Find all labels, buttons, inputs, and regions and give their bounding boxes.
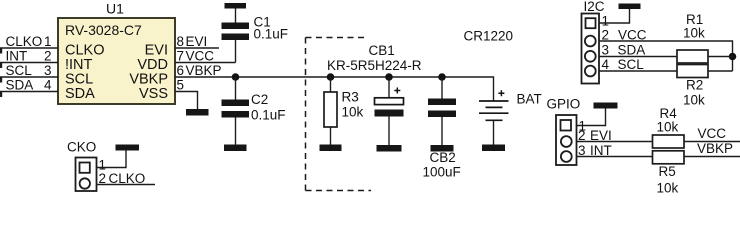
svg-text:C2: C2: [251, 92, 268, 107]
connector GPIO: [556, 115, 577, 165]
connector CKO: [76, 158, 97, 192]
CKO pin 1 wire to ground: [97, 151, 127, 173]
ground above CKO: [116, 145, 140, 151]
svg-text:CB1: CB1: [369, 43, 395, 58]
svg-text:2: 2: [44, 49, 52, 64]
svg-text:10k: 10k: [683, 26, 705, 41]
svg-text:U1: U1: [106, 1, 124, 17]
svg-text:SCL: SCL: [618, 57, 645, 72]
node junction C2/bus: [232, 73, 240, 81]
svg-text:BAT: BAT: [517, 92, 542, 107]
resistor R4: [653, 135, 740, 148]
svg-text:KR-5R5H224-R: KR-5R5H224-R: [327, 58, 422, 73]
connector I2C: [582, 14, 600, 84]
svg-text:3: 3: [44, 63, 52, 78]
net EVI wire (GPIO pin 2): [577, 128, 653, 143]
net SCL wire (I2C pin 4): [599, 57, 677, 72]
svg-text:CR1220: CR1220: [464, 29, 514, 44]
IC U1 RV-3028-C7: [58, 18, 175, 104]
ground below CB2: [431, 145, 454, 152]
net INT (IC pin 2) wire: [0, 49, 58, 69]
svg-text:3: 3: [578, 143, 586, 158]
svg-text:4: 4: [602, 57, 610, 72]
svg-text:8: 8: [177, 34, 185, 49]
label R5 10k: [657, 164, 679, 196]
resistor R3: [324, 77, 337, 145]
svg-text:0.1uF: 0.1uF: [251, 108, 286, 123]
capacitor CB1 (supercap, polarized): [375, 77, 404, 145]
svg-text:CLKO: CLKO: [6, 34, 43, 49]
label CB2 100uF: [423, 150, 461, 180]
net VCC wire (I2C pin 2): [599, 28, 733, 72]
capacitor CB2: [428, 77, 456, 145]
node junction CB2/bus: [438, 73, 446, 81]
svg-text:10k: 10k: [657, 181, 679, 196]
node junction R1/VCC: [729, 53, 737, 61]
dashed enclosure (backup options): [306, 38, 372, 191]
svg-text:2: 2: [602, 28, 610, 43]
svg-text:1: 1: [602, 14, 610, 29]
svg-text:EVI: EVI: [590, 128, 612, 143]
label C1 0.1uF: [254, 15, 289, 42]
svg-text:EVI: EVI: [186, 34, 208, 49]
ground below CB1: [377, 145, 402, 152]
ground above C1: [225, 3, 247, 23]
ground VSS: [186, 109, 209, 116]
I2C pin 1 wire to ground: [599, 9, 630, 29]
net VCC (IC pin 7) wire: [175, 40, 236, 64]
svg-text:100uF: 100uF: [423, 165, 461, 180]
label R1 10k: [683, 12, 705, 41]
svg-text:10k: 10k: [342, 105, 364, 120]
svg-text:CB2: CB2: [430, 150, 456, 165]
svg-text:GPIO: GPIO: [547, 97, 581, 112]
svg-text:CLKO: CLKO: [109, 171, 146, 186]
ground below R3: [320, 145, 342, 152]
net SDA (IC pin 4) wire: [0, 78, 58, 98]
net EVI (IC pin 8) wire: [175, 34, 219, 49]
label R2 10k: [683, 78, 705, 108]
svg-text:10k: 10k: [683, 93, 705, 108]
net CLKO wire (CKO pin 2): [97, 171, 156, 186]
svg-text:INT: INT: [6, 49, 28, 64]
svg-text:I2C: I2C: [584, 0, 605, 14]
resistor R2: [677, 65, 733, 78]
ground below C2: [224, 145, 247, 152]
svg-text:5: 5: [177, 78, 185, 93]
label R4 10k: [657, 106, 679, 135]
svg-text:VSS: VSS: [139, 86, 168, 102]
svg-text:0.1uF: 0.1uF: [254, 27, 289, 42]
svg-text:6: 6: [177, 63, 185, 78]
svg-text:VBKP: VBKP: [697, 141, 733, 156]
svg-text:SDA: SDA: [65, 86, 95, 102]
svg-text:CKO: CKO: [67, 140, 96, 155]
ground above I2C: [619, 4, 641, 10]
node junction CB1/bus: [385, 73, 393, 81]
label C2 0.1uF: [251, 92, 286, 123]
svg-text:3: 3: [602, 43, 610, 58]
svg-text:R2: R2: [686, 78, 703, 93]
net INT wire (GPIO pin 3): [577, 143, 653, 158]
svg-text:SDA: SDA: [6, 78, 34, 93]
net VBKP bus wire (IC pin 6 to BAT): [175, 63, 494, 101]
net SCL (IC pin 3) wire: [0, 63, 58, 83]
GPIO pin 1 wire to ground: [577, 109, 606, 134]
svg-text:2: 2: [99, 171, 107, 186]
svg-text:VCC: VCC: [186, 49, 215, 64]
svg-text:RV-3028-C7: RV-3028-C7: [65, 22, 142, 38]
node junction R3/bus: [327, 73, 335, 81]
IC pin 5 VSS wire: [175, 78, 198, 110]
battery BAT CR1220: [479, 90, 509, 144]
net SDA wire (I2C pin 3): [599, 43, 677, 58]
svg-text:1: 1: [44, 34, 52, 49]
label CB1 KR-5R5H224-R: [327, 43, 422, 73]
resistor R5: [653, 151, 740, 164]
label R3 10k: [342, 90, 364, 120]
ground below BAT: [482, 145, 505, 152]
svg-text:R3: R3: [342, 90, 359, 105]
svg-text:4: 4: [44, 78, 52, 93]
svg-text:VBKP: VBKP: [186, 63, 222, 78]
svg-text:7: 7: [177, 49, 185, 64]
svg-text:10k: 10k: [657, 120, 679, 135]
ground above GPIO: [594, 103, 618, 109]
svg-text:2: 2: [578, 128, 586, 143]
capacitor C2: [222, 77, 250, 145]
svg-text:R5: R5: [659, 164, 676, 179]
svg-text:VCC: VCC: [618, 28, 647, 43]
svg-text:SCL: SCL: [6, 63, 33, 78]
net CLKO (IC pin 1) wire: [0, 34, 58, 54]
svg-text:INT: INT: [590, 143, 612, 158]
svg-text:SDA: SDA: [618, 43, 646, 58]
capacitor C1: [222, 23, 250, 41]
resistor R1: [677, 50, 733, 63]
svg-text:VCC: VCC: [698, 126, 727, 141]
